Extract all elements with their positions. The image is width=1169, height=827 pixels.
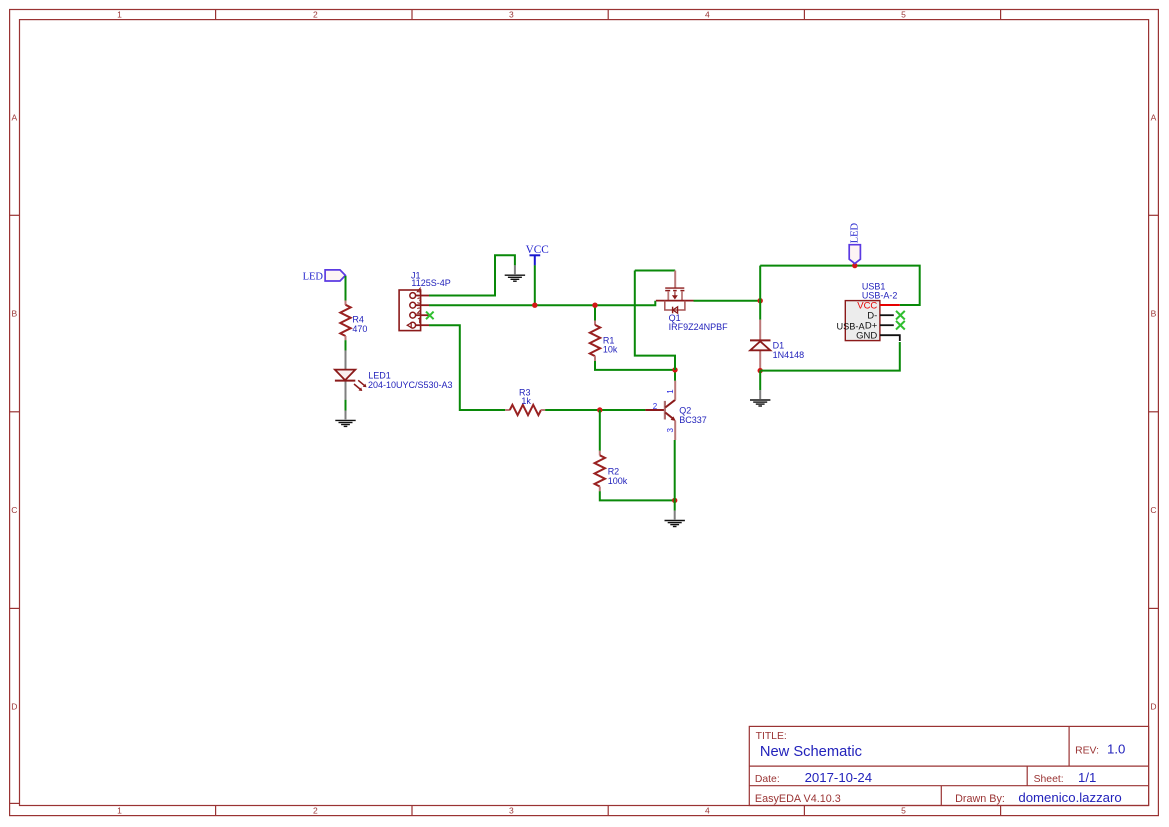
svg-text:5: 5: [901, 9, 906, 19]
svg-text:1: 1: [117, 806, 122, 816]
svg-text:10k: 10k: [603, 345, 618, 355]
svg-text:VCC: VCC: [526, 244, 549, 256]
svg-text:1N4148: 1N4148: [773, 350, 805, 360]
svg-text:A: A: [11, 113, 17, 123]
no-connect X on J1 pin 2: [426, 312, 434, 320]
wire: [635, 270, 675, 272]
svg-text:4: 4: [705, 806, 710, 816]
svg-text:Date:: Date:: [755, 774, 780, 785]
wire: [674, 370, 676, 381]
svg-text:B: B: [11, 309, 17, 319]
svg-text:A: A: [1151, 113, 1157, 123]
connector USB1: [837, 281, 900, 341]
junction: [852, 263, 857, 268]
net flag LED: [303, 270, 346, 283]
svg-text:5: 5: [901, 806, 906, 816]
svg-text:4: 4: [705, 9, 710, 19]
wire: [599, 410, 601, 451]
svg-text:R4: R4: [352, 314, 364, 324]
mosfet Q1: [656, 271, 728, 332]
net flag LED: [849, 222, 860, 263]
svg-text:C: C: [11, 505, 17, 515]
svg-text:2: 2: [653, 402, 658, 411]
wire: [345, 340, 347, 350]
svg-text:LED: LED: [303, 272, 324, 283]
svg-text:1: 1: [666, 389, 675, 394]
svg-text:1/1: 1/1: [1078, 770, 1096, 785]
junction: [592, 303, 597, 308]
svg-text:USB-A: USB-A: [837, 322, 866, 332]
svg-text:1: 1: [117, 9, 122, 19]
title block: [749, 726, 1148, 805]
resistor R4: [340, 301, 367, 341]
power flag VCC: [526, 244, 549, 266]
wire: [429, 325, 505, 410]
svg-text:D: D: [11, 702, 17, 712]
junction: [758, 368, 763, 373]
transistor Q2: [645, 381, 706, 440]
svg-text:2: 2: [313, 9, 318, 19]
wire: [759, 371, 761, 391]
svg-text:Drawn By:: Drawn By:: [955, 793, 1005, 805]
wire: [545, 409, 645, 411]
wire: [595, 361, 675, 370]
wire: [674, 440, 676, 500]
svg-text:IRF9Z24NPBF: IRF9Z24NPBF: [669, 322, 729, 332]
ground: [665, 511, 685, 527]
svg-text:EasyEDA V4.10.3: EasyEDA V4.10.3: [755, 793, 841, 805]
svg-text:New Schematic: New Schematic: [760, 744, 862, 760]
svg-text:B: B: [1151, 309, 1157, 319]
svg-text:domenico.lazzaro: domenico.lazzaro: [1018, 790, 1121, 805]
no-connect X on D+: [896, 321, 905, 330]
resistor R2: [595, 451, 628, 492]
svg-text:470: 470: [352, 324, 367, 334]
svg-text:BC337: BC337: [679, 415, 707, 425]
wire: [760, 266, 920, 305]
svg-text:1k: 1k: [521, 396, 531, 406]
svg-text:1125S-4P: 1125S-4P: [411, 278, 450, 288]
svg-text:USB-A-2: USB-A-2: [862, 291, 898, 301]
LED LED1: [335, 350, 453, 400]
wire: [534, 265, 536, 305]
svg-text:Sheet:: Sheet:: [1034, 774, 1064, 785]
junction: [758, 298, 763, 303]
svg-text:R2: R2: [608, 467, 620, 477]
svg-text:LED: LED: [849, 222, 860, 243]
wire: [429, 301, 655, 306]
ground: [335, 411, 355, 427]
svg-text:D1: D1: [773, 340, 785, 350]
junction: [532, 303, 537, 308]
resistor R3: [505, 387, 545, 415]
svg-text:2: 2: [313, 806, 318, 816]
svg-text:D: D: [1150, 702, 1156, 712]
wire: [674, 500, 676, 510]
svg-text:LED1: LED1: [368, 370, 391, 380]
wire: [594, 305, 596, 320]
svg-text:100k: 100k: [608, 476, 628, 486]
wire: [635, 271, 675, 370]
junction: [672, 498, 677, 503]
svg-text:C: C: [1150, 505, 1156, 515]
wire: [759, 266, 761, 320]
no-connect X on D-: [896, 311, 905, 320]
svg-text:TITLE:: TITLE:: [756, 731, 787, 742]
wire: [694, 300, 761, 302]
svg-text:3: 3: [509, 9, 514, 19]
wire: [429, 255, 515, 295]
svg-text:1.0: 1.0: [1107, 741, 1125, 756]
wire: [760, 342, 900, 371]
svg-text:2017-10-24: 2017-10-24: [805, 770, 872, 785]
wire: [345, 276, 347, 301]
resistor R1: [590, 321, 618, 362]
svg-text:GND: GND: [856, 331, 877, 342]
connector J1: [399, 271, 451, 331]
ground: [750, 390, 770, 406]
svg-text:REV:: REV:: [1075, 745, 1099, 756]
diode D1: [750, 320, 804, 369]
wire: [345, 400, 347, 411]
ground: [505, 265, 525, 281]
wire: [600, 491, 675, 500]
svg-text:204-10UYC/S530-A3: 204-10UYC/S530-A3: [368, 380, 453, 390]
svg-text:3: 3: [509, 806, 514, 816]
junction: [597, 407, 602, 412]
junction: [672, 367, 677, 372]
svg-text:3: 3: [666, 428, 675, 433]
